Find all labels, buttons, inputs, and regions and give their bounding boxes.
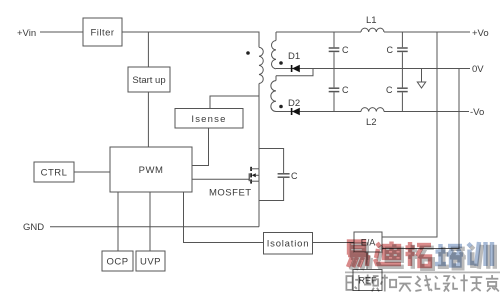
svg-text:C: C [387,45,394,55]
svg-text:UVP: UVP [140,257,161,268]
svg-text:L1: L1 [366,15,377,26]
transformer T1 secondary bottom winding [271,76,276,112]
wire CTRL to PWM [74,171,110,173]
wire -Vo rail left segment [276,111,361,113]
svg-text:GND: GND [23,222,44,233]
wire +Vo top rail left segment [276,31,361,33]
svg-text:Start up: Start up [132,75,165,86]
E/A error amplifier block [354,232,382,252]
wire MOSFET source to GND rail [258,181,260,227]
capacitor C1 column1 top [329,32,340,69]
svg-text:PWM: PWM [139,165,164,176]
svg-text:D2: D2 [288,98,300,109]
wire Start up to PWM [147,92,149,147]
svg-text:OCP: OCP [106,257,128,268]
watermark tagline gray text [346,275,498,292]
capacitor C snubber [259,149,290,201]
transformer T1 secondary top winding [271,32,276,69]
watermark underline rule [345,271,500,273]
svg-text:D1: D1 [288,51,300,62]
CTRL block [34,162,74,182]
transistor Q1 MOSFET [249,167,259,184]
diode D1 [292,65,300,72]
ground 0V reference arrow [417,69,425,89]
secondary top polarity dot [279,61,283,65]
Filter F1 [83,18,122,46]
wire PWM to Isolation [184,192,264,243]
wire -Vo rail right segment [384,111,469,113]
wire Isense tap [210,96,259,109]
svg-text:+Vo: +Vo [472,28,489,39]
wire 0V feedback to E/A [382,69,459,249]
PWM block [110,147,192,192]
UVP block [136,251,165,271]
svg-text:MOSFET: MOSFET [209,188,252,199]
capacitor C4 column2 bottom [397,69,408,112]
Isolation block [264,233,313,255]
transformer T1 primary winding [259,47,263,83]
wire GND rail [50,226,259,228]
Start up block [128,67,170,92]
Isense block [175,109,243,129]
watermark logo shadow [351,244,495,269]
svg-text:C: C [291,171,298,181]
svg-text:C: C [386,85,393,95]
wire Isense to PWM [192,128,209,166]
svg-text:0V: 0V [472,64,484,75]
capacitor C3 column2 top [397,32,408,69]
inductor L2 [361,108,384,112]
wire +Vin to Filter [40,31,83,33]
wire Filter to transformer primary top [122,32,259,47]
svg-text:CTRL: CTRL [41,168,68,179]
secondary bottom polarity dot [279,105,283,109]
wire Isolation to E/A [313,242,355,244]
wire 0V rail [276,68,470,70]
wire PWM to UVP [149,192,151,251]
watermark logo text blue part [435,242,492,266]
wire center-tap jog to 0V rail [276,69,313,76]
OCP block [102,251,133,271]
svg-text:L2: L2 [366,117,377,128]
inductor L1 [361,28,384,32]
svg-text:Isolation: Isolation [267,239,310,250]
svg-text:+Vin: +Vin [17,28,36,39]
svg-text:-Vo: -Vo [470,107,484,118]
capacitor C2 column1 bottom [329,69,340,112]
wire top rail to Start up [147,32,149,67]
wire +Vo top rail right segment [384,31,470,33]
svg-text:C: C [342,85,349,95]
svg-text:Isense: Isense [191,114,226,125]
primary polarity dot [246,51,250,55]
svg-text:Filter: Filter [90,28,114,39]
wire primary to MOSFET drain [258,84,260,169]
REF block [353,270,382,291]
watermark logo text red part [348,242,431,268]
wire +Vo feedback to E/A [382,32,437,237]
wire E/A to REF [366,252,368,270]
wire PWM to MOSFET gate [192,178,249,180]
diode D2 [292,108,300,115]
wire PWM to OCP [117,192,119,251]
svg-text:C: C [342,45,349,55]
